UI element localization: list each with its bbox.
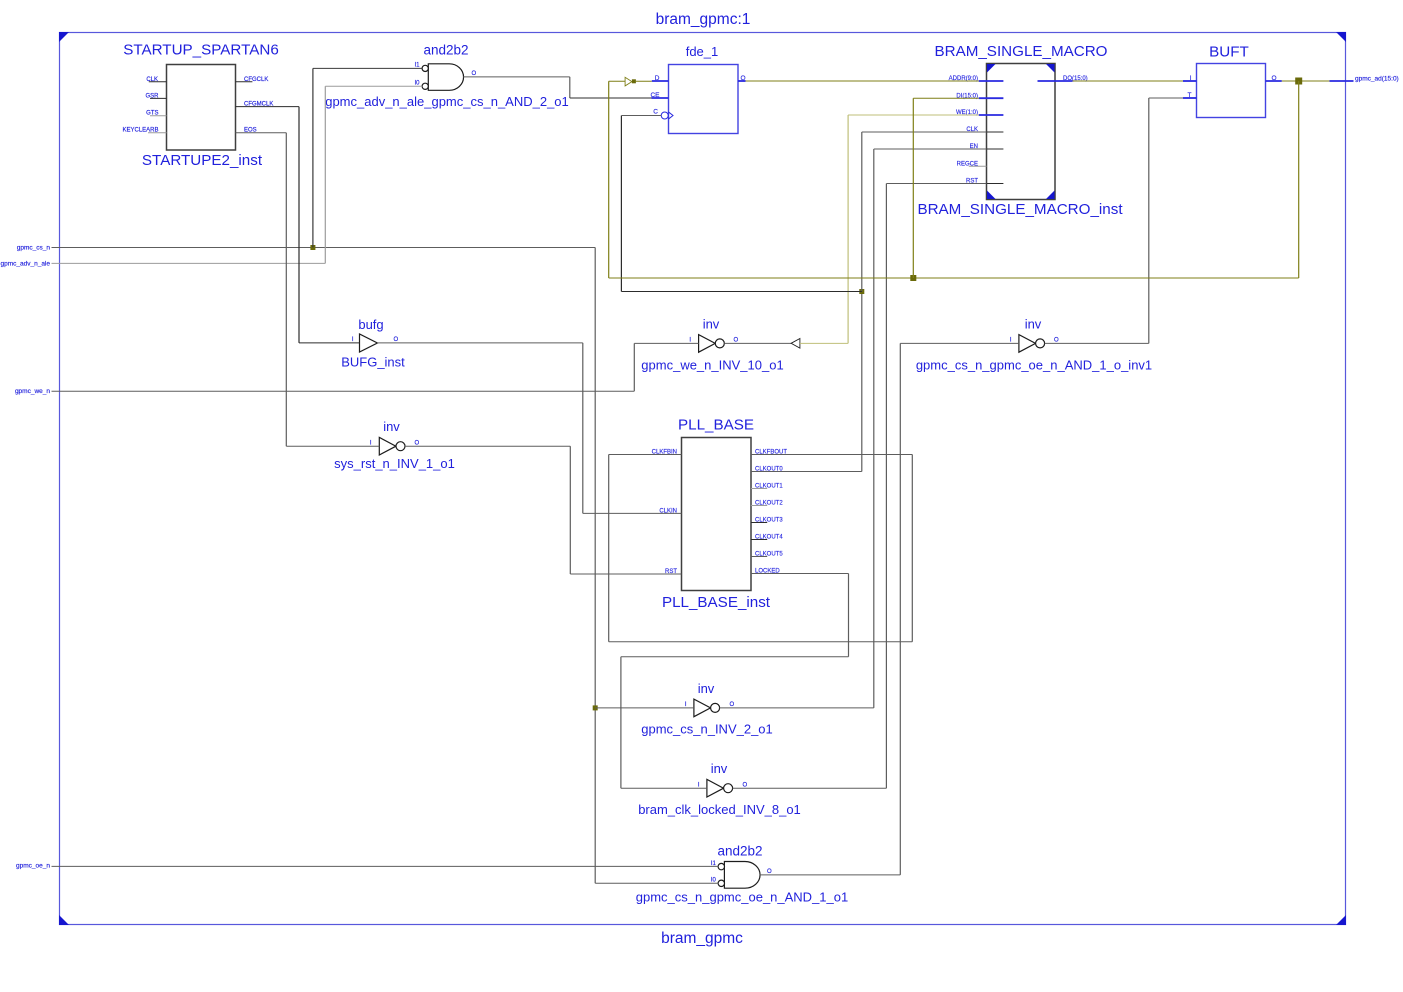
svg-text:O: O (734, 338, 739, 344)
bram corner bottom-right (1046, 191, 1055, 200)
wire inv1 O to BUFT T (1045, 342, 1149, 344)
svg-text:I: I (685, 702, 687, 708)
wire clock net to fde C (621, 291, 861, 293)
gate inv sys_rst_n_INV_1_o1 (379, 437, 405, 455)
svg-text:STARTUP_SPARTAN6: STARTUP_SPARTAN6 (123, 42, 279, 59)
bram corner top-left (987, 64, 996, 73)
svg-text:O: O (415, 440, 420, 446)
gate inv bram_clk_locked_INV_8_o1 (707, 779, 733, 797)
svg-text:gpmc_oe_n: gpmc_oe_n (16, 862, 50, 869)
gate and2b2 gpmc_adv_n_ale_gpmc_cs_n_AND_2_o1 (422, 64, 463, 91)
junction gpmc_cs_n at inv2 (593, 705, 598, 710)
wire PLL LOCKED loop to inv8 I (751, 573, 849, 575)
svg-text:inv: inv (1025, 317, 1042, 332)
gate inv gpmc_we_n_INV_10_o1 (699, 335, 725, 353)
gate inv gpmc_cs_n_gpmc_oe_n_AND_1_o_inv1 (1019, 335, 1045, 353)
svg-text:O: O (767, 869, 772, 875)
wire and2b2 AND_1 output to inv1 I (760, 874, 901, 876)
svg-text:inv: inv (711, 761, 728, 776)
gate inv gpmc_cs_n_INV_2_o1 (694, 699, 720, 717)
bram corner bottom-left (987, 191, 996, 200)
svg-text:inv: inv (703, 317, 720, 332)
junction output bus (1295, 78, 1302, 85)
svg-text:and2b2: and2b2 (423, 43, 468, 58)
svg-text:I: I (698, 782, 700, 788)
svg-text:bram_gpmc: bram_gpmc (661, 930, 743, 947)
bus WE(1:0) pale (800, 342, 848, 344)
wire inv2 O to BRAM EN (720, 707, 874, 709)
wire and2b2 AND_2 output to fde CE (463, 76, 570, 78)
svg-text:O: O (472, 71, 477, 77)
wire clock net to BRAM CLK (861, 132, 863, 292)
wire CFGMCLK to bufg I (236, 106, 300, 108)
svg-text:BUFT: BUFT (1209, 44, 1249, 61)
wire PLL CLKFB feedback loop (751, 454, 912, 456)
svg-text:I: I (370, 440, 372, 446)
bus gpmc_ad bottom run (609, 277, 1299, 279)
svg-text:gpmc_we_n: gpmc_we_n (15, 388, 50, 395)
wire EOS to sys_rst inv I (236, 132, 287, 134)
svg-text:gpmc_we_n_INV_10_o1: gpmc_we_n_INV_10_o1 (641, 358, 783, 373)
svg-text:I: I (1010, 338, 1012, 344)
svg-text:I0: I0 (414, 81, 420, 87)
svg-text:BRAM_SINGLE_MACRO: BRAM_SINGLE_MACRO (934, 43, 1107, 60)
component PLL_BASE_inst (682, 438, 752, 591)
junction clock net (859, 289, 864, 294)
svg-text:inv: inv (383, 419, 400, 434)
svg-text:gpmc_cs_n_gpmc_oe_n_AND_1_o1: gpmc_cs_n_gpmc_oe_n_AND_1_o1 (636, 889, 848, 904)
svg-text:C: C (653, 109, 658, 116)
svg-text:and2b2: and2b2 (717, 844, 762, 859)
component BRAM_SINGLE_MACRO_inst (987, 64, 1056, 200)
frame corner top-right (1336, 32, 1346, 42)
component STARTUPE2_inst (STARTUP_SPARTAN6) (167, 65, 236, 151)
bus BUFT O to port gpmc_ad (1282, 80, 1330, 82)
frame corner bottom-left (59, 915, 69, 925)
svg-text:bram_clk_locked_INV_8_o1: bram_clk_locked_INV_8_o1 (638, 802, 801, 817)
svg-text:sys_rst_n_INV_1_o1: sys_rst_n_INV_1_o1 (334, 456, 455, 471)
bus to BRAM DI(15:0) (912, 98, 914, 278)
svg-text:I1: I1 (414, 63, 420, 69)
wire net gpmc_cs_n horizontal (52, 247, 596, 249)
svg-text:gpmc_cs_n_INV_2_o1: gpmc_cs_n_INV_2_o1 (641, 722, 773, 737)
frame corner top-left (59, 32, 69, 42)
frame corner bottom-right (1336, 915, 1346, 925)
wire inv8 O to BRAM RST (733, 787, 887, 789)
svg-text:gpmc_cs_n: gpmc_cs_n (17, 245, 51, 252)
svg-text:BRAM_SINGLE_MACRO_inst: BRAM_SINGLE_MACRO_inst (917, 201, 1123, 218)
svg-text:inv: inv (698, 681, 715, 696)
gate and2b2 gpmc_cs_n_gpmc_oe_n_AND_1_o1 (718, 862, 760, 889)
wire gpmc_cs_n to and2b2 AND_1 I0 (595, 882, 718, 884)
wire PLL CLKOUT0 to clock net (751, 471, 862, 473)
wire net gpmc_adv_n_ale (52, 262, 326, 264)
bram corner top-right (1046, 64, 1055, 73)
svg-text:gpmc_ad(15:0): gpmc_ad(15:0) (1355, 76, 1399, 83)
svg-text:fde_1: fde_1 (686, 44, 719, 59)
svg-text:gpmc_cs_n_gpmc_oe_n_AND_1_o_in: gpmc_cs_n_gpmc_oe_n_AND_1_o_inv1 (916, 358, 1152, 373)
svg-text:gpmc_adv_n_ale_gpmc_cs_n_AND_2: gpmc_adv_n_ale_gpmc_cs_n_AND_2_o1 (325, 94, 569, 109)
bus gpmc_ad tap to fde D (608, 81, 610, 278)
bus fde Q to BRAM ADDR(9:0) (746, 80, 979, 82)
wire output to border (1330, 80, 1354, 82)
component BUFT tristate buffer (1197, 64, 1266, 118)
wire sys_rst inv O to PLL RST (405, 445, 570, 447)
wire inv_10 output to bus tap (724, 342, 791, 344)
wire gpmc_cs_n to inv2 I (595, 707, 694, 709)
bus tap arrow (WE net) (791, 339, 800, 349)
svg-text:bram_gpmc:1: bram_gpmc:1 (656, 11, 751, 28)
svg-text:O: O (1054, 338, 1059, 344)
wire gpmc_cs_n to and2b2 I1 (312, 68, 314, 247)
svg-text:O: O (743, 782, 748, 788)
svg-text:STARTUPE2_inst: STARTUPE2_inst (142, 152, 263, 169)
gate bufg BUFG_inst (360, 334, 378, 352)
svg-text:PLL_BASE: PLL_BASE (678, 417, 754, 434)
svg-text:I: I (352, 337, 354, 343)
bus BRAM DO to BUFT I (1073, 80, 1184, 82)
wire net gpmc_oe_n to and2b2 AND_1 I1 (52, 865, 719, 867)
wire net gpmc_we_n to inv I (52, 390, 635, 392)
svg-text:gpmc_adv_n_ale: gpmc_adv_n_ale (0, 260, 50, 267)
svg-text:bufg: bufg (358, 317, 383, 332)
svg-text:O: O (730, 702, 735, 708)
svg-text:I0: I0 (711, 878, 717, 884)
wire net gpmc_cs_n vertical trunk (594, 248, 596, 884)
junction gpmc_cs_n (310, 245, 315, 250)
svg-text:O: O (394, 337, 399, 343)
svg-text:I: I (689, 338, 691, 344)
wire bufg O to PLL CLKIN (377, 342, 582, 344)
svg-text:PLL_BASE_inst: PLL_BASE_inst (662, 594, 771, 611)
bus tap arrow into fde D (625, 77, 632, 86)
junction bus at DI (910, 275, 916, 281)
component fde_1 flip-flop (669, 65, 739, 134)
svg-text:BUFG_inst: BUFG_inst (341, 355, 405, 370)
